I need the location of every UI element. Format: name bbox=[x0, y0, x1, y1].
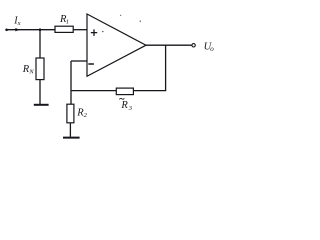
wire R3 to feedback riser bbox=[133, 90, 166, 92]
svg-text:1: 1 bbox=[66, 19, 69, 26]
op-amp plus sign bbox=[91, 29, 97, 36]
arrowhead Ix bbox=[15, 28, 20, 31]
wire R1 to op-amp + input bbox=[73, 29, 87, 31]
node junction at RN tap bbox=[39, 28, 42, 31]
speck noise bbox=[140, 21, 141, 22]
svg-text:3: 3 bbox=[128, 105, 133, 112]
speck noise bbox=[120, 15, 121, 16]
resistor R3 bbox=[116, 88, 133, 95]
output terminal bbox=[192, 44, 195, 47]
op-amp minus sign bbox=[88, 63, 94, 65]
wire feedback node to R3 bbox=[71, 90, 116, 92]
wire RN tap down bbox=[39, 30, 41, 59]
op-amp U1 bbox=[87, 14, 146, 76]
wire input to R1 bbox=[7, 29, 55, 31]
ground under R2 bbox=[63, 137, 80, 139]
wire RN to ground bbox=[39, 80, 41, 105]
wire op-amp output bbox=[146, 44, 192, 46]
svg-text:x: x bbox=[17, 20, 21, 27]
input terminal bbox=[5, 29, 8, 32]
resistor RN bbox=[36, 58, 44, 80]
wire feedback riser bbox=[165, 45, 167, 90]
svg-text:R: R bbox=[120, 100, 128, 111]
label R3 tilde mark bbox=[119, 98, 124, 99]
wire R2 to ground bbox=[69, 123, 71, 137]
resistor R1 bbox=[55, 26, 73, 32]
resistor R2 bbox=[67, 104, 74, 123]
svg-text:N: N bbox=[28, 69, 34, 76]
ground under RN bbox=[34, 104, 49, 106]
speck noise bbox=[102, 31, 103, 32]
wire op-amp inverting input bbox=[71, 60, 87, 62]
wire inverting input down to feedback node bbox=[70, 61, 72, 104]
svg-text:o: o bbox=[210, 45, 214, 53]
